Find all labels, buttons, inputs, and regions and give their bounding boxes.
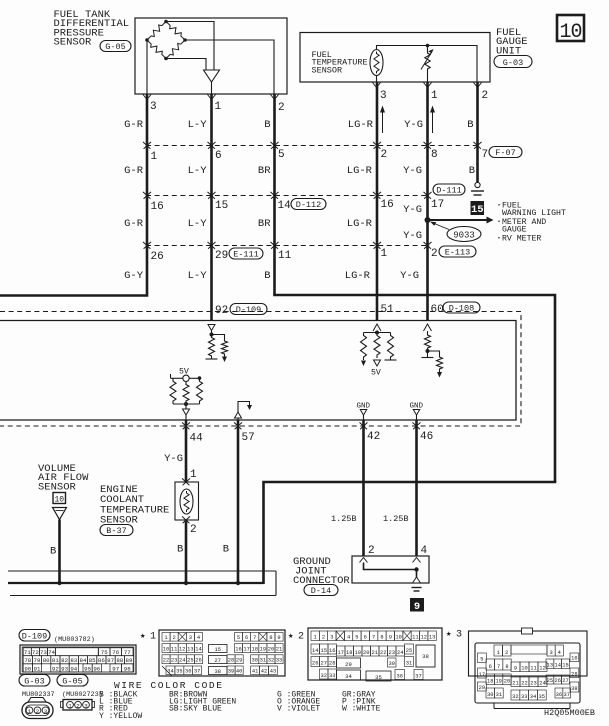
svg-text:15: 15 — [215, 200, 228, 212]
svg-text:B: B — [467, 119, 473, 131]
svg-text:D-111: D-111 — [436, 185, 462, 195]
svg-text:19: 19 — [260, 647, 266, 653]
ECU dashed border — [0, 312, 521, 427]
wire W6 B pin2 to ground — [476, 82, 479, 182]
svg-text:8: 8 — [380, 635, 383, 641]
svg-text:B: B — [223, 544, 229, 556]
svg-text:1: 1 — [190, 469, 197, 481]
svg-text:38: 38 — [571, 686, 577, 692]
junction node Y-G to meter — [425, 217, 431, 223]
svg-text:11: 11 — [530, 666, 536, 672]
connector star 2 pin layout — [308, 628, 442, 680]
connector label G-03 bottom — [19, 675, 50, 687]
svg-text:4: 4 — [421, 545, 428, 557]
page reference 9 black box — [410, 598, 424, 612]
svg-text:14: 14 — [195, 647, 201, 653]
svg-text:BR: BR — [258, 218, 271, 230]
svg-text:80: 80 — [43, 657, 50, 664]
svg-text:Y-G: Y-G — [403, 230, 422, 242]
wire temp sensor bottom to pin 3 — [376, 76, 378, 83]
direction arrow on Y-G wire — [432, 112, 434, 133]
wire temp sensor top to bus — [377, 46, 478, 83]
svg-text:E-111: E-111 — [233, 249, 259, 259]
svg-text:G-Y: G-Y — [124, 270, 144, 282]
svg-text:Y-G: Y-G — [400, 270, 419, 282]
svg-text:24: 24 — [179, 658, 185, 664]
svg-text:15: 15 — [471, 204, 484, 216]
svg-text:10: 10 — [521, 666, 527, 672]
svg-text:2: 2 — [431, 248, 438, 260]
entry arrows D-14 — [360, 558, 368, 563]
svg-text:L-Y: L-Y — [188, 218, 208, 230]
svg-text:32: 32 — [512, 694, 518, 700]
svg-text:82: 82 — [61, 657, 68, 664]
wire W1 G-R pin3 to left exit — [0, 94, 147, 296]
svg-text:1: 1 — [150, 632, 156, 643]
svg-text:95: 95 — [84, 665, 91, 672]
wire pin 46 to ground joint connector — [415, 420, 418, 556]
svg-text:L-Y: L-Y — [188, 119, 208, 131]
direction arrow on LG-R wire — [382, 112, 384, 133]
page reference 10 box small — [53, 493, 66, 504]
svg-text:L-Y: L-Y — [188, 270, 208, 282]
svg-text:33: 33 — [329, 673, 335, 679]
svg-text:1: 1 — [28, 708, 32, 715]
svg-text:72: 72 — [32, 649, 39, 656]
svg-text:77: 77 — [124, 649, 131, 656]
svg-text:30: 30 — [389, 661, 395, 667]
svg-text:85: 85 — [89, 657, 96, 664]
svg-text:15: 15 — [562, 663, 568, 669]
svg-text:28: 28 — [228, 658, 234, 664]
svg-text:34: 34 — [167, 669, 173, 675]
svg-text:1: 1 — [164, 635, 167, 641]
svg-text:★: ★ — [288, 631, 294, 641]
svg-text:5: 5 — [278, 149, 285, 161]
svg-text:13: 13 — [187, 647, 193, 653]
svg-text:22: 22 — [380, 650, 386, 656]
svg-text:37: 37 — [563, 692, 569, 698]
wire W2 L-Y pin1 to ECU pin 92 — [210, 94, 213, 321]
connector row 3 dashed line — [146, 245, 430, 247]
wire pin 57 to ground bus — [237, 420, 240, 583]
svg-text:24: 24 — [539, 681, 545, 687]
svg-text:33: 33 — [521, 694, 527, 700]
svg-text:Y-G: Y-G — [403, 165, 422, 177]
svg-text:G-R: G-R — [124, 165, 144, 177]
svg-text:B: B — [469, 165, 475, 177]
page number 10 box — [557, 15, 584, 41]
fuel gauge sender variable resistor — [427, 46, 429, 53]
svg-text:G-R: G-R — [124, 218, 144, 230]
svg-text:17: 17 — [338, 650, 344, 656]
ground symbol body ground — [475, 182, 480, 187]
svg-text:35: 35 — [375, 674, 382, 681]
pressure sensor U1 box — [135, 18, 287, 94]
svg-text:98: 98 — [124, 665, 131, 672]
svg-text:13: 13 — [429, 635, 435, 641]
svg-text:27: 27 — [214, 657, 221, 664]
internal ground link — [364, 563, 417, 584]
svg-text:28: 28 — [329, 661, 335, 667]
svg-text:25: 25 — [187, 658, 193, 664]
svg-text:SENSOR: SENSOR — [38, 481, 77, 493]
connector star 3 pin layout — [475, 643, 580, 703]
wire W3 B pin2 down — [273, 94, 276, 295]
svg-text:(MU803782): (MU803782) — [54, 636, 95, 644]
svg-text:2: 2 — [482, 90, 489, 102]
svg-text:36: 36 — [185, 669, 191, 675]
svg-text:17: 17 — [479, 672, 485, 678]
svg-text:14: 14 — [312, 648, 318, 654]
ground bus frame bottom — [10, 595, 276, 597]
svg-text:93: 93 — [61, 665, 68, 672]
svg-text:1: 1 — [431, 90, 438, 102]
svg-text:91: 91 — [34, 665, 41, 672]
ground symbol below D-14 — [413, 577, 421, 583]
coolant sensor box — [175, 482, 199, 520]
svg-text:46: 46 — [420, 431, 433, 443]
svg-text:38: 38 — [422, 653, 429, 660]
svg-text:94: 94 — [70, 665, 77, 672]
svg-text:G-05: G-05 — [62, 676, 82, 686]
svg-text:31: 31 — [496, 692, 502, 698]
svg-text:D-109: D-109 — [236, 305, 262, 315]
svg-text:B: B — [177, 544, 183, 556]
svg-text:Y-G: Y-G — [164, 453, 183, 465]
svg-text:9: 9 — [514, 666, 517, 672]
connector label E-113 — [439, 246, 476, 257]
svg-text:9: 9 — [277, 635, 280, 641]
svg-text:23: 23 — [171, 658, 177, 664]
svg-text:16: 16 — [381, 199, 394, 211]
svg-text:16: 16 — [571, 656, 577, 662]
svg-text:WIRE COLOR CODE: WIRE COLOR CODE — [114, 680, 224, 691]
svg-text:42: 42 — [367, 431, 380, 443]
svg-text:9: 9 — [414, 601, 420, 613]
svg-text:32: 32 — [268, 658, 274, 664]
svg-text:71: 71 — [24, 649, 31, 656]
svg-text:84: 84 — [80, 657, 87, 664]
svg-text:12: 12 — [179, 647, 185, 653]
connector label G-05 — [100, 41, 131, 52]
svg-text:88: 88 — [116, 657, 123, 664]
wire air flow sensor to ground bus — [58, 520, 61, 584]
svg-text:LG-R: LG-R — [347, 165, 373, 177]
wire W4 LG-R pin3 to ECU pin 51 — [376, 82, 379, 321]
svg-text:97: 97 — [112, 665, 119, 672]
svg-text:V :VIOLET: V :VIOLET — [277, 705, 320, 714]
svg-text:SB:SKY BLUE: SB:SKY BLUE — [169, 705, 222, 714]
svg-text:★: ★ — [446, 629, 452, 639]
svg-text:23: 23 — [530, 681, 536, 687]
svg-text:10: 10 — [559, 21, 581, 44]
svg-text:41: 41 — [252, 669, 258, 675]
svg-text:27: 27 — [562, 678, 568, 684]
svg-text:51: 51 — [381, 304, 395, 316]
svg-text:L-Y: L-Y — [188, 165, 208, 177]
svg-text:22: 22 — [163, 658, 169, 664]
svg-text:42: 42 — [261, 669, 267, 675]
svg-text:16: 16 — [151, 201, 164, 213]
svg-text:7: 7 — [482, 149, 489, 161]
junction sender to bus — [426, 44, 430, 48]
svg-text:87: 87 — [107, 657, 114, 664]
svg-text:26: 26 — [312, 661, 318, 667]
connector D-109 pin layout — [20, 645, 136, 674]
wire pin 44 Y-G to coolant sensor — [185, 420, 188, 482]
svg-text:36: 36 — [397, 674, 403, 680]
ground joint connector box — [352, 556, 429, 583]
ECU bottom exit arrows — [182, 422, 189, 429]
ground bus frame top — [8, 570, 276, 572]
svg-text:B-37: B-37 — [106, 526, 126, 536]
wire W3 B bus right — [273, 295, 555, 482]
connector label G-05 bottom — [57, 675, 88, 687]
svg-text:21: 21 — [512, 681, 518, 687]
svg-text:2: 2 — [190, 524, 197, 536]
svg-text:H2Q05M00EB: H2Q05M00EB — [544, 708, 595, 718]
svg-text:10: 10 — [395, 635, 401, 641]
svg-text:5: 5 — [237, 635, 240, 641]
svg-text:75: 75 — [101, 649, 108, 656]
svg-text:26: 26 — [151, 251, 164, 263]
svg-text:36: 36 — [556, 692, 562, 698]
svg-text:7: 7 — [497, 664, 500, 670]
svg-text:2: 2 — [76, 703, 80, 710]
svg-text:79: 79 — [34, 657, 41, 664]
connector label D-108 — [443, 302, 480, 313]
svg-text:3: 3 — [549, 650, 552, 656]
svg-text:4: 4 — [197, 635, 200, 641]
svg-text:30: 30 — [487, 692, 493, 698]
page reference 15 black box — [471, 201, 485, 215]
svg-text:83: 83 — [70, 657, 77, 664]
svg-text:3: 3 — [150, 101, 157, 113]
svg-text:1: 1 — [381, 248, 388, 260]
svg-text:73: 73 — [40, 649, 47, 656]
svg-text:20: 20 — [504, 679, 510, 685]
svg-text:1: 1 — [215, 101, 222, 113]
svg-text:90: 90 — [24, 665, 31, 672]
svg-text:2: 2 — [505, 650, 508, 656]
svg-text:27: 27 — [321, 661, 327, 667]
svg-text:G-R: G-R — [124, 119, 144, 131]
connector label D-14 — [304, 585, 338, 596]
amplifier triangle — [204, 70, 220, 82]
svg-text:37: 37 — [415, 674, 421, 680]
svg-text:F-07: F-07 — [495, 148, 515, 158]
wire bridge top node to amplifier — [166, 22, 214, 71]
svg-text:SENSOR: SENSOR — [312, 65, 343, 75]
svg-text:B: B — [264, 119, 270, 131]
svg-text:33: 33 — [276, 658, 282, 664]
ECU switch contact pin 57 — [238, 402, 250, 413]
svg-text:21: 21 — [372, 650, 378, 656]
svg-text:3: 3 — [189, 635, 192, 641]
wire coolant sensor to ground bus — [185, 520, 188, 583]
svg-text:15: 15 — [214, 646, 221, 653]
connector star 1 pin layout — [159, 630, 285, 676]
svg-text:7: 7 — [253, 635, 256, 641]
splice 9033 label — [447, 227, 481, 242]
svg-text:74: 74 — [48, 649, 55, 656]
svg-text:2: 2 — [381, 149, 388, 161]
svg-text:11: 11 — [412, 635, 418, 641]
svg-text:30: 30 — [252, 658, 258, 664]
wire bridge left node to pin 3 — [146, 40, 148, 94]
ECU pin 60 label — [430, 302, 444, 313]
svg-text:32: 32 — [321, 673, 327, 679]
svg-text:5: 5 — [355, 635, 358, 641]
connector G-05 face view — [63, 700, 92, 711]
connector row 2 dashed line — [146, 195, 428, 197]
svg-text:(MU802723): (MU802723) — [62, 691, 103, 699]
wire W5 Y-G pin1 to ECU pin 60 — [426, 82, 429, 321]
svg-text:29: 29 — [236, 658, 242, 664]
svg-text:1: 1 — [68, 703, 72, 710]
connector label F-07 — [489, 147, 522, 158]
ground bus frame right — [275, 571, 277, 596]
svg-text:96: 96 — [93, 665, 100, 672]
off-page triangle connector — [53, 508, 67, 520]
svg-text:13: 13 — [547, 663, 553, 669]
svg-text:G-05: G-05 — [105, 42, 125, 52]
svg-text:29: 29 — [215, 250, 228, 262]
svg-text:1: 1 — [497, 650, 500, 656]
connector label G-03 — [494, 56, 532, 68]
svg-text:89: 89 — [126, 657, 133, 664]
svg-text:8: 8 — [431, 149, 438, 161]
svg-text:D-14: D-14 — [311, 586, 331, 596]
svg-text:92: 92 — [52, 665, 59, 672]
svg-text:1: 1 — [314, 635, 317, 641]
connector star 3 housing — [469, 631, 588, 676]
arrow from 9033 to junction — [433, 223, 449, 230]
svg-text:18: 18 — [346, 650, 352, 656]
svg-text:BR: BR — [258, 165, 271, 177]
svg-text:18: 18 — [252, 647, 258, 653]
wire bridge right node to pin 2 — [185, 40, 274, 94]
connector row F-07 dashed line — [146, 145, 481, 147]
svg-text:86: 86 — [98, 657, 105, 664]
svg-text:9: 9 — [389, 635, 392, 641]
svg-text:16: 16 — [235, 647, 241, 653]
svg-text:23: 23 — [389, 650, 395, 656]
pin exit arrows box G-05 — [143, 95, 151, 100]
svg-text:18: 18 — [487, 679, 493, 685]
svg-text:14: 14 — [554, 663, 560, 669]
svg-text:34: 34 — [345, 673, 352, 680]
svg-text:RV METER: RV METER — [502, 235, 541, 244]
svg-text:37: 37 — [194, 669, 200, 675]
svg-text:15: 15 — [321, 648, 327, 654]
ground bus conductor — [8, 582, 264, 584]
svg-text:20: 20 — [268, 647, 274, 653]
svg-text:W :WHITE: W :WHITE — [342, 705, 381, 714]
svg-text:78: 78 — [24, 657, 31, 664]
ECU entry arrows — [373, 324, 381, 331]
svg-text:2: 2 — [173, 635, 176, 641]
svg-text:12: 12 — [539, 666, 545, 672]
svg-text:D-112: D-112 — [296, 200, 322, 210]
svg-text:3: 3 — [380, 90, 387, 102]
svg-text:Y :YELLOW: Y :YELLOW — [99, 712, 142, 721]
svg-text:8: 8 — [269, 635, 272, 641]
wire to meter and gauge — [428, 219, 488, 221]
ECU 5V reference network pin 51 — [376, 331, 378, 332]
svg-text:29: 29 — [345, 661, 352, 668]
svg-text:D-108: D-108 — [449, 303, 475, 313]
svg-text:2: 2 — [278, 102, 285, 114]
svg-text:9033: 9033 — [453, 231, 475, 241]
svg-text:60: 60 — [431, 304, 444, 316]
svg-text:16: 16 — [329, 648, 335, 654]
svg-text:3: 3 — [44, 708, 48, 715]
ECU pin 92 label — [214, 303, 228, 314]
pin exit arrows fuel gauge unit — [373, 83, 381, 88]
svg-text:3: 3 — [84, 703, 88, 710]
svg-text:10: 10 — [54, 496, 64, 505]
svg-text:6: 6 — [245, 635, 248, 641]
svg-text:22: 22 — [521, 681, 527, 687]
svg-text:31: 31 — [406, 661, 412, 667]
svg-text:19: 19 — [495, 679, 501, 685]
connector label B-37 — [100, 525, 133, 536]
ECU pin 51 label — [380, 302, 394, 313]
svg-text:26: 26 — [195, 658, 201, 664]
svg-text:G-03: G-03 — [24, 676, 44, 686]
connector label D-109 — [230, 304, 267, 315]
connector G-03 face view — [28, 698, 46, 703]
wire pin 42 to ground joint connector — [362, 420, 365, 556]
svg-text:76: 76 — [112, 649, 119, 656]
svg-text:11: 11 — [171, 647, 177, 653]
svg-text:43: 43 — [270, 669, 276, 675]
ECU input network pin 92 — [208, 325, 215, 331]
svg-text:B: B — [50, 546, 56, 558]
connector label E-111 — [229, 248, 263, 259]
svg-text:★: ★ — [140, 631, 146, 641]
svg-text:17: 17 — [243, 647, 249, 653]
svg-text:11: 11 — [278, 250, 292, 262]
wire bridge bottom node to amplifier — [166, 59, 206, 71]
svg-text:34: 34 — [530, 694, 536, 700]
svg-text:19: 19 — [355, 650, 361, 656]
svg-text:6: 6 — [215, 150, 222, 162]
wire amplifier output to pin 1 — [211, 82, 213, 94]
svg-text:35: 35 — [176, 669, 182, 675]
svg-text:B: B — [264, 270, 270, 282]
svg-text:25: 25 — [547, 678, 553, 684]
svg-text:28: 28 — [571, 672, 577, 678]
svg-text:1.25B: 1.25B — [383, 514, 409, 524]
wire W3 B bus lower return — [264, 482, 557, 584]
svg-text:G-03: G-03 — [503, 58, 523, 68]
svg-text:Y-G: Y-G — [404, 119, 423, 131]
svg-text:2: 2 — [36, 708, 40, 715]
fuel gauge unit box — [300, 33, 490, 83]
ECU pull-up network pin 60 — [427, 331, 429, 332]
svg-text:6: 6 — [364, 635, 367, 641]
svg-text:LG-R: LG-R — [348, 119, 374, 131]
svg-text:4: 4 — [347, 635, 350, 641]
ECU solid border — [0, 321, 516, 421]
svg-text:SENSOR: SENSOR — [54, 37, 93, 49]
svg-text:4: 4 — [558, 650, 561, 656]
svg-text:2: 2 — [322, 635, 325, 641]
svg-text:38: 38 — [214, 668, 221, 675]
